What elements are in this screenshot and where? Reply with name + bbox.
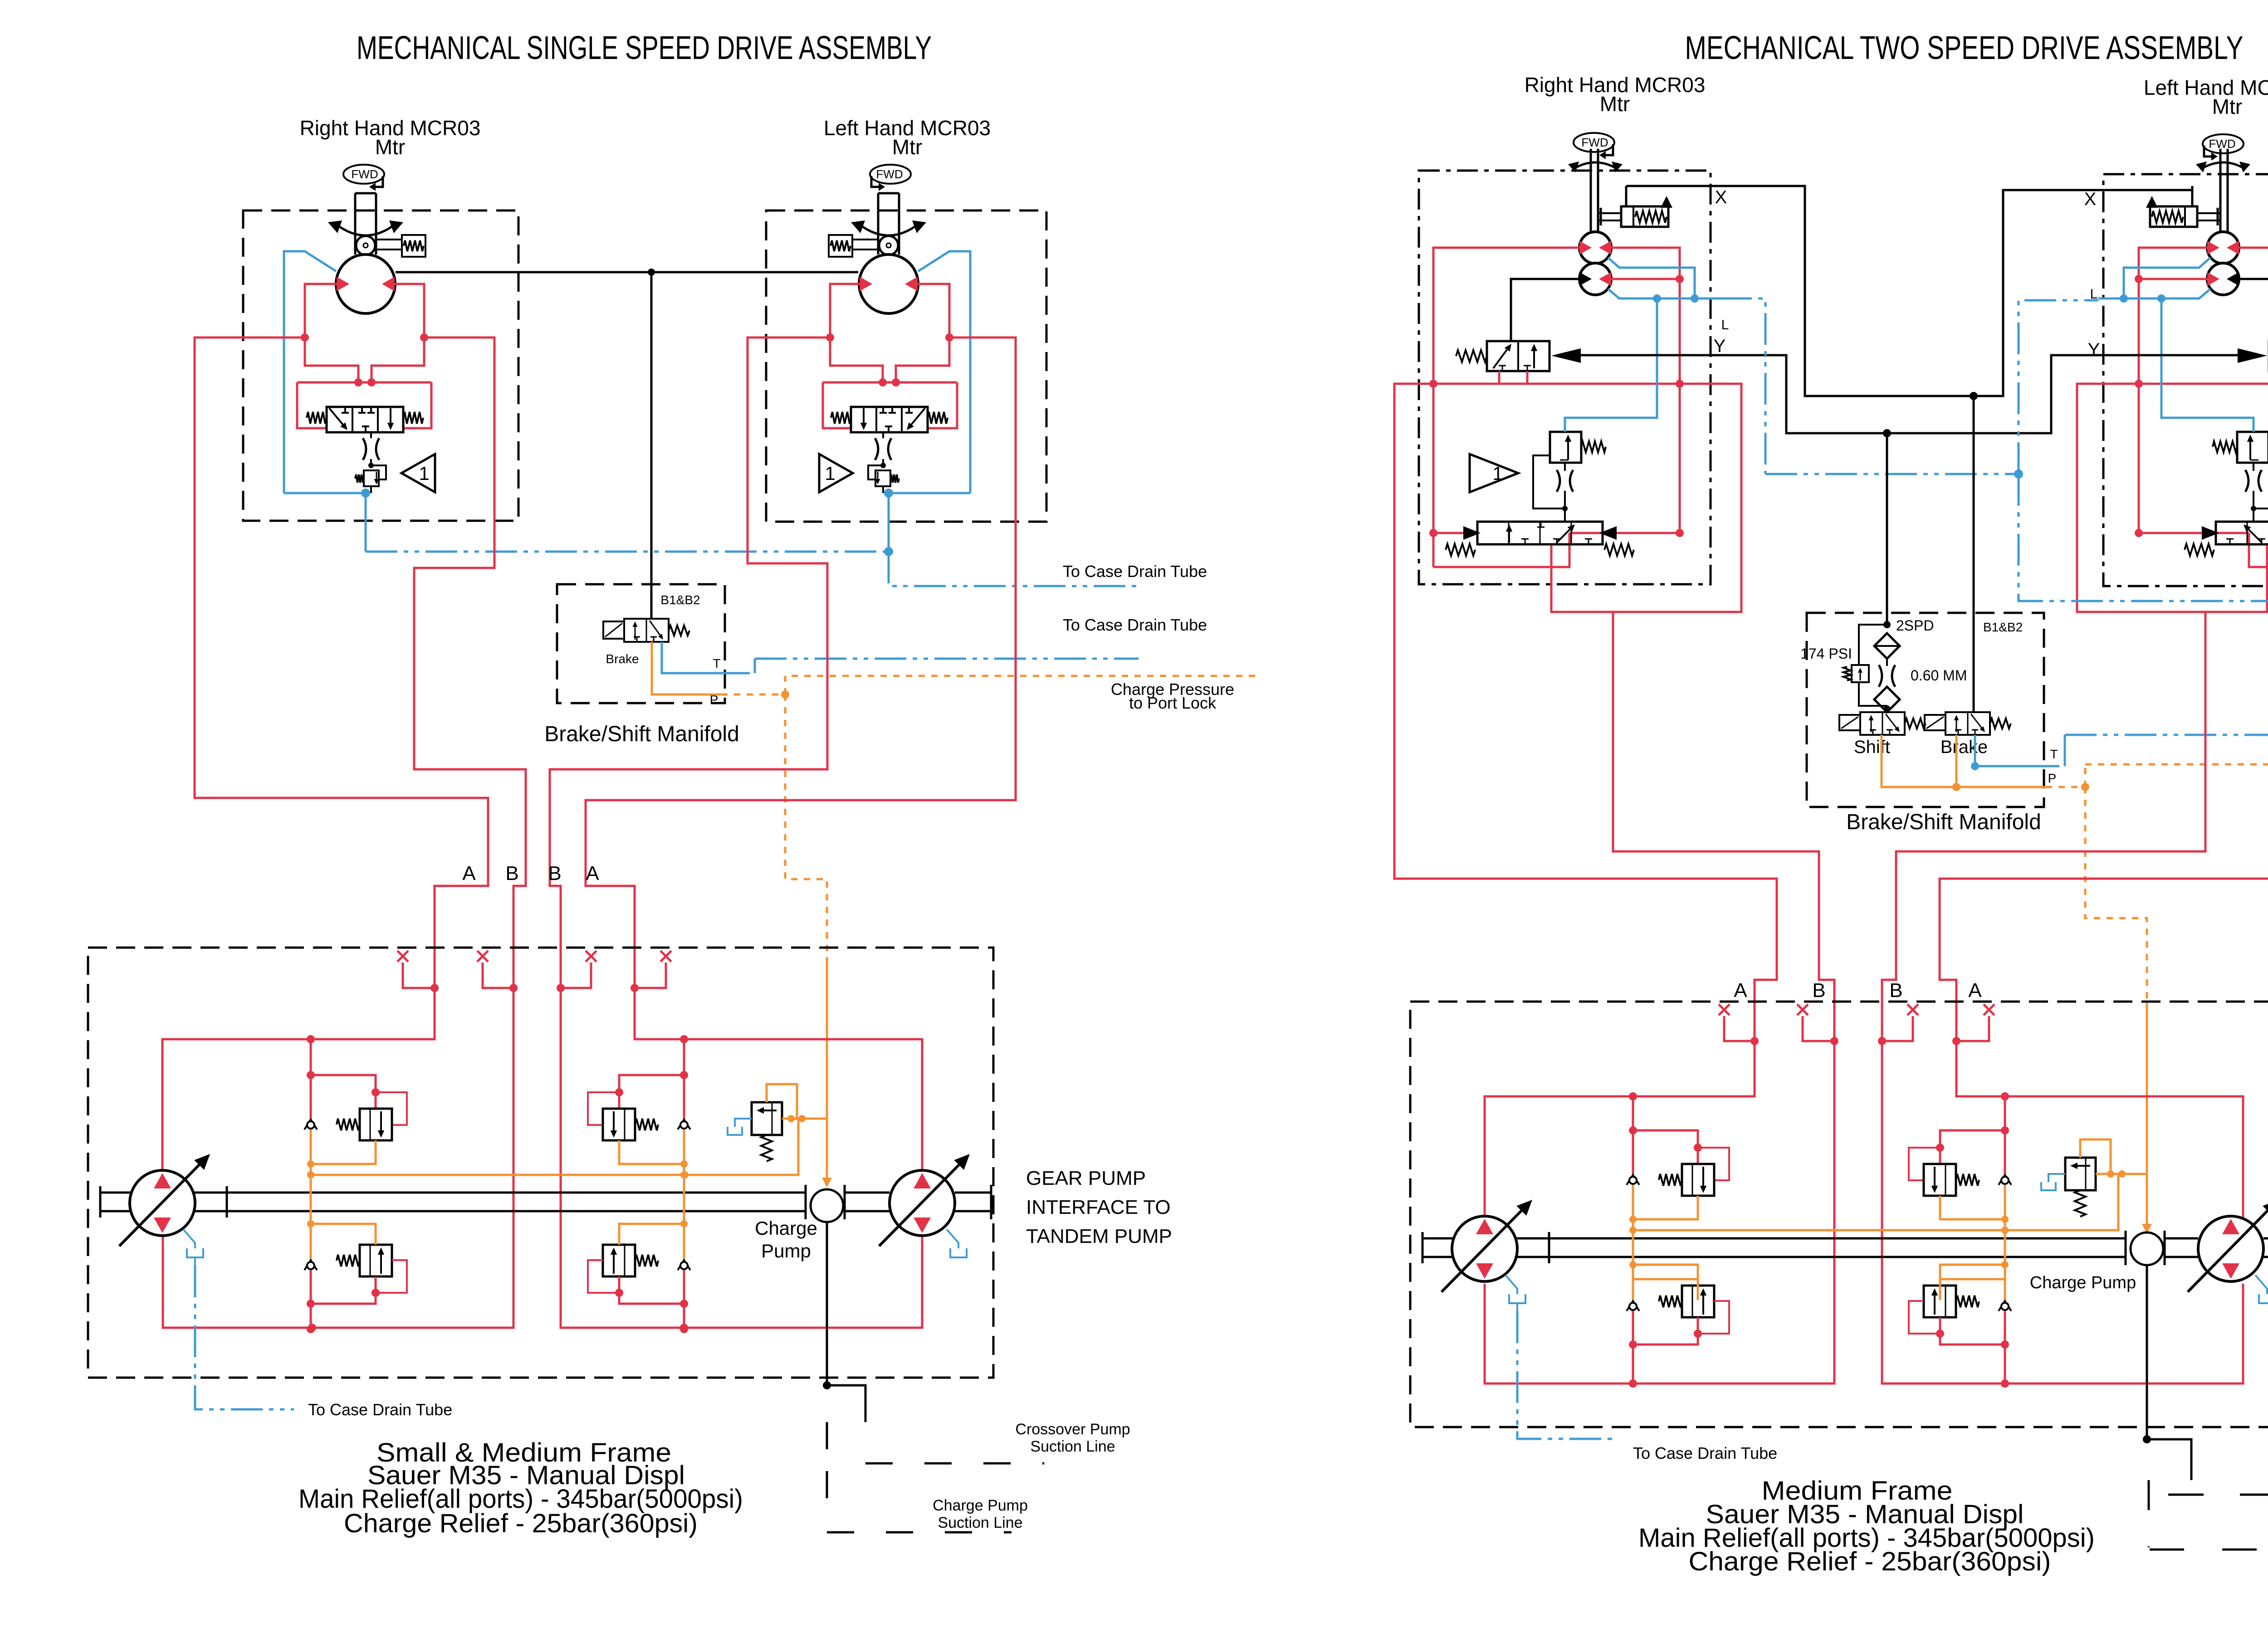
wire manifold valves feed [1886, 709, 1888, 712]
wire red port to valve loop right [830, 337, 883, 382]
wire relief to drain [882, 486, 884, 493]
wire red column upper [683, 1039, 685, 1119]
wire orifice to relief [370, 459, 372, 465]
brake release valve 2spd [1487, 341, 1549, 371]
motor rotation arrows [861, 226, 916, 235]
wire red rail 2spd [2139, 383, 2268, 385]
manifold 2 dashed box [1807, 613, 2044, 807]
svg-text:B1&B2: B1&B2 [660, 593, 700, 607]
check valve upper [1627, 1175, 1639, 1185]
svg-text:1: 1 [1492, 463, 1503, 484]
charge suction dashes right [2148, 1480, 2150, 1547]
motor rotation arrows [338, 226, 393, 235]
svg-text:A: A [586, 862, 599, 885]
filter diamond [1874, 633, 1900, 659]
motor circle [859, 254, 918, 313]
wire red net A2 right [1940, 384, 2268, 1218]
net A2 plug stub [635, 963, 666, 988]
wire red relief out lower [311, 1276, 376, 1304]
check valve upper [678, 1120, 690, 1129]
wire red rail to outer [2077, 384, 2267, 612]
wire orange charge bus lower right [619, 1224, 684, 1245]
FWD rotation ellipse [870, 165, 911, 184]
wire orange brake drop [1955, 735, 1958, 787]
wire orange column mid [683, 1129, 685, 1259]
pump variable arrow [119, 1165, 199, 1246]
manifold brake valve [603, 621, 624, 639]
check valve upper [304, 1120, 317, 1129]
wire orange charge relief out [782, 1118, 827, 1120]
svg-text:MECHANICAL SINGLE SPEED DRIVE: MECHANICAL SINGLE SPEED DRIVE ASSEMBLY [357, 30, 932, 66]
motor shaft [898, 193, 900, 254]
gauge triangle 2spd [1470, 454, 1518, 492]
wire red net A right [1394, 384, 1777, 1218]
wire black charge suction right [2146, 1265, 2148, 1439]
svg-text:Brake/Shift Manifold: Brake/Shift Manifold [544, 722, 739, 746]
svg-text:Mtr: Mtr [375, 135, 405, 159]
psi relief [1859, 625, 1887, 665]
FWD rotation ellipse [343, 165, 384, 184]
wire red rail 2spd [1433, 383, 1680, 385]
wire red relief branch upper [619, 1075, 684, 1109]
defeat relief valve [875, 470, 890, 486]
wire red net B [163, 337, 526, 1328]
motor M4 left-hand dashed box [2103, 174, 2268, 586]
variable pump circle [2198, 1216, 2263, 1281]
svg-text:T: T [2050, 747, 2058, 761]
svg-text:To Case Drain Tube: To Case Drain Tube [1063, 616, 1207, 634]
charge relief valve right [2065, 1158, 2096, 1190]
svg-text:Brake/Shift Manifold: Brake/Shift Manifold [1846, 810, 2041, 834]
blue pump drain out right [1517, 1311, 1615, 1439]
motor circle lower 2spd [1579, 263, 1611, 295]
wire valve to orifice [882, 432, 884, 438]
blue drain junction [884, 489, 893, 498]
FWD arrow hook [2204, 146, 2214, 156]
wire red left col to valve [1432, 384, 1435, 567]
brake valve springs [307, 412, 327, 424]
blue drain loops 2spd [2124, 258, 2210, 298]
motor triangles 2spd [1579, 241, 1592, 254]
wire blue manifold T [662, 642, 750, 673]
wire orange relief branch lower [311, 1224, 376, 1245]
orifice [363, 438, 366, 460]
blue pilot link [2161, 298, 2253, 432]
relief pilot loop [371, 465, 386, 479]
wire red rail to outer [1551, 384, 1741, 612]
wire red port to valve loop left [896, 337, 949, 382]
pump variable arrow [879, 1165, 959, 1246]
wire red inner loop down [2139, 384, 2249, 533]
junction dots motor ports [301, 333, 309, 342]
wire orange relief out upper [1940, 1196, 2005, 1219]
pump flow triangles [1476, 1219, 1493, 1234]
shift spool valve 2spd [1477, 522, 1603, 544]
wire red column upper [2004, 1096, 2006, 1174]
gauge triangle 1 [401, 454, 435, 492]
charge relief blue drain [735, 1119, 752, 1127]
svg-text:Charge Relief - 25bar(360psi): Charge Relief - 25bar(360psi) [1689, 1547, 2051, 1576]
orifice [875, 438, 878, 460]
svg-text:A: A [1734, 979, 1747, 1002]
svg-text:FWD: FWD [351, 167, 378, 181]
relief valve upper [360, 1109, 392, 1140]
wire red relief out lower [619, 1276, 684, 1304]
wire red net B right [1485, 612, 1834, 1384]
wire orange charge bus upper [311, 1119, 798, 1175]
check valve upper [1999, 1175, 2011, 1185]
wire black 2SPD riser [1886, 433, 1888, 625]
wire orange riser right [2085, 787, 2147, 1002]
motor shaft joint circle [356, 236, 375, 255]
motor shaft 2spd [1590, 149, 1592, 233]
relief valve lower [1924, 1286, 1956, 1317]
shift spool valve 2spd [2216, 522, 2268, 544]
wire red lower circle right [1611, 278, 1680, 280]
brake solenoid valve [1925, 715, 1945, 730]
pump flow triangles [2222, 1219, 2239, 1234]
wire black motor link [396, 271, 858, 274]
wire black X to actuator [1625, 186, 1628, 206]
spool springs 2spd [1446, 544, 1475, 556]
wire red upper circle loop [2239, 248, 2268, 384]
motor circle upper 2spd [2207, 232, 2239, 264]
wire red column upper [310, 1039, 312, 1119]
svg-text:Brake: Brake [1941, 737, 1988, 757]
relief pilot upper [588, 1092, 619, 1125]
motor M1 right-hand dashed box [243, 210, 518, 521]
FWD arrow hook [373, 176, 383, 187]
blue case drain internal [889, 492, 970, 494]
svg-text:FWD: FWD [2209, 137, 2235, 151]
wire black X net [1626, 186, 2192, 396]
motor circle upper 2spd [1579, 232, 1611, 264]
relief valve upper [1682, 1164, 1714, 1196]
wire red relief out lower [1633, 1317, 1698, 1345]
orange P junction dot [781, 690, 789, 699]
wire blue drain case right 2 [2065, 734, 2268, 736]
wire relief to drain [370, 486, 372, 493]
check diamond [1874, 687, 1900, 712]
pump P4 drain hook [2255, 1275, 2267, 1294]
net A2 right stub [1956, 1016, 1989, 1041]
solenoid arrow 2spd [1551, 348, 1581, 363]
wire orange relief branch lower [1940, 1265, 2005, 1286]
wire red valve legs [1498, 371, 1501, 384]
wire red port to valve loop right [371, 337, 424, 382]
junction dots valve loop top [892, 378, 900, 386]
svg-text:MECHANICAL TWO SPEED DRIVE ASS: MECHANICAL TWO SPEED DRIVE ASSEMBLY [1685, 30, 2244, 66]
wire orange column mid [310, 1129, 312, 1259]
wire red relief branch upper [311, 1075, 376, 1109]
wire red motor left port [918, 284, 949, 337]
motor triangles 2spd [2227, 241, 2239, 254]
wire black lower circle left [1511, 279, 1580, 341]
svg-text:A: A [1968, 979, 1982, 1002]
wire chain [1886, 659, 1888, 666]
solenoid arrow 2spd [2238, 348, 2267, 363]
variable pump circle [130, 1170, 195, 1236]
FWD rotation ellipse [1574, 133, 1614, 152]
svg-text:Y: Y [1714, 336, 1726, 356]
wire orifice chain 2spd [2253, 463, 2254, 471]
pump flow triangles [154, 1173, 171, 1188]
net B2 plug stub [561, 963, 591, 988]
orifice manifold [1879, 665, 1882, 687]
svg-text:Mtr: Mtr [1600, 92, 1630, 116]
svg-text:To Case Drain Tube: To Case Drain Tube [308, 1400, 452, 1419]
svg-text:B: B [1812, 979, 1825, 1002]
svg-text:P: P [2048, 771, 2057, 785]
net A right stub [1724, 1016, 1755, 1041]
blue drain loops 2spd [1608, 258, 1695, 298]
pump shaft right [1422, 1237, 2126, 1240]
wire orange manifold P 2 [1882, 735, 2046, 787]
relief valve lower [603, 1245, 635, 1276]
motor port triangles [337, 277, 349, 291]
wire red net A [162, 337, 488, 1171]
svg-text:0.60 MM: 0.60 MM [1911, 667, 1967, 684]
wire red column lower [2004, 1311, 2006, 1384]
relief pilot upper [376, 1092, 407, 1125]
wire orange port lock right [2046, 786, 2085, 788]
pilot loop 2spd [2253, 455, 2268, 508]
wire black B1B2 riser [1973, 396, 1975, 712]
charge relief pilot right [2080, 1139, 2111, 1174]
wire red net B2 [550, 337, 922, 1328]
svg-text:Charge Relief - 25bar(360psi): Charge Relief - 25bar(360psi) [344, 1509, 698, 1538]
wire blue drain M1 to junction [366, 551, 889, 553]
check valve lower [678, 1260, 690, 1270]
wire black Y net [1581, 355, 2238, 433]
wire orange charge bus lower left [311, 1224, 376, 1245]
junction dots valve loop top [354, 378, 362, 386]
pump box right dashed [1410, 1002, 2268, 1427]
wire red motor left port [305, 284, 337, 337]
svg-text:Suction Line: Suction Line [938, 1514, 1022, 1531]
red rail dots [1429, 380, 1437, 388]
motor shaft 2spd [2227, 149, 2229, 233]
wire orange riser to charge pump [826, 1119, 828, 1179]
motor port triangles [905, 277, 918, 291]
wire blue L net [1720, 298, 1765, 474]
pump variable arrow [2188, 1211, 2268, 1292]
wire red inner loop down [1569, 384, 1680, 533]
blue drain junction dot [884, 547, 893, 556]
variable pump circle [890, 1170, 955, 1236]
wire orifice chain 2spd [1564, 463, 1566, 471]
wire red net B2 right [1882, 612, 2243, 1384]
gauge triangle 1 [819, 454, 853, 492]
wire orange relief out upper [1633, 1196, 1698, 1219]
check valve lower [1627, 1301, 1639, 1311]
crossover suction link [827, 1385, 865, 1422]
relief pilot lower [1909, 1301, 1940, 1334]
wire orange relief out upper [311, 1140, 376, 1164]
wire orange charge to port lock [792, 675, 1261, 677]
blue pilot link [1565, 298, 1657, 432]
relief pilot lower [588, 1260, 619, 1293]
pump P2 drain hook [947, 1229, 958, 1248]
svg-text:To Case Drain Tube: To Case Drain Tube [1633, 1444, 1777, 1462]
svg-text:FWD: FWD [876, 167, 903, 181]
wire red relief branch upper [1633, 1130, 1698, 1164]
wire red lower circle right [2139, 278, 2208, 280]
blue case drain internal [284, 492, 366, 494]
displacement limiter cylinder [852, 239, 878, 240]
wire blue manifold T 2 [1975, 735, 2059, 766]
svg-text:2SPD: 2SPD [1896, 617, 1934, 634]
motor circle [336, 254, 395, 313]
rotation arc 2spd [1574, 162, 1617, 169]
wire orange relief branch lower [1633, 1265, 1698, 1286]
pump box dashed [88, 948, 993, 1378]
svg-text:GEAR PUMP: GEAR PUMP [1026, 1167, 1146, 1189]
svg-text:A: A [462, 862, 476, 885]
svg-text:Y: Y [2088, 340, 2100, 360]
svg-text:Brake: Brake [606, 652, 639, 666]
blue drain down [888, 493, 890, 552]
pump P1 drain hook [183, 1229, 195, 1248]
svg-text:T: T [713, 656, 720, 670]
wire red relief out lower [1940, 1317, 2005, 1345]
pump shaft [100, 1192, 806, 1194]
wire orange charge relief out right [2096, 1173, 2147, 1175]
blue drain down [365, 493, 367, 552]
wire orange manifold P [652, 642, 721, 694]
blue drain junction [361, 489, 370, 498]
wire blue drain case 1 [889, 552, 1139, 586]
wire red relief branch upper [1940, 1130, 2005, 1164]
svg-text:Shift: Shift [1854, 737, 1890, 757]
svg-text:Mtr: Mtr [2212, 95, 2242, 118]
displacement actuator 2spd [2197, 212, 2220, 214]
relief valve upper [1924, 1164, 1956, 1196]
wire orange relief out upper [619, 1140, 684, 1164]
svg-text:To Case Drain Tube: To Case Drain Tube [1063, 562, 1207, 581]
relief pilot loop [868, 465, 883, 479]
svg-text:174 PSI: 174 PSI [1800, 645, 1852, 662]
wire red column lower [1632, 1311, 1634, 1384]
defeat relief valve [364, 470, 379, 486]
wire red column lower [310, 1270, 312, 1329]
svg-text:X: X [1715, 187, 1727, 207]
check valve lower [1999, 1301, 2011, 1311]
relief pilot lower [1698, 1301, 1729, 1334]
motor shaft joint circle [879, 236, 898, 255]
svg-text:X: X [2084, 189, 2097, 209]
svg-text:Suction Line: Suction Line [1030, 1438, 1115, 1455]
svg-text:Charge: Charge [755, 1217, 817, 1239]
relief pilot upper [1698, 1148, 1729, 1180]
wire black X to actuator [2191, 186, 2194, 206]
wire red column lower [683, 1270, 685, 1329]
rotation arc 2spd [2201, 162, 2245, 169]
svg-text:Pump: Pump [761, 1240, 811, 1261]
wire red net A2 [586, 337, 1016, 1171]
orange triangle right [2142, 1224, 2152, 1234]
brake/shift manifold dashed box [557, 584, 725, 703]
pilot loop 2spd [1533, 455, 1565, 508]
pump flow triangles [914, 1173, 931, 1188]
junction dots motor ports [945, 333, 953, 342]
brake shuttle valve body [327, 407, 403, 432]
svg-text:Charge Pump: Charge Pump [2030, 1273, 2136, 1292]
wire black to brake manifold [650, 272, 653, 619]
svg-text:TANDEM PUMP: TANDEM PUMP [1026, 1225, 1172, 1247]
motor M3 right-hand dashed box [1419, 171, 1711, 584]
svg-text:B: B [1889, 979, 1902, 1002]
red stubs spool [1433, 532, 1463, 534]
wire blue L drain out [2019, 474, 2268, 601]
brake valve springs [928, 412, 948, 424]
wire chain 2 [1884, 705, 1890, 712]
wire orifice to relief [882, 459, 884, 465]
relief pilot upper [1909, 1148, 1940, 1180]
blue pump drain out [195, 1266, 294, 1409]
wire blue drain case 2 from T [755, 658, 1139, 660]
relief valve lower [1682, 1286, 1714, 1317]
net B2 right stub [1882, 1016, 1913, 1041]
svg-text:Crossover Pump: Crossover Pump [1015, 1421, 1130, 1438]
charge pump circle right [2131, 1232, 2163, 1265]
svg-text:1: 1 [419, 463, 429, 484]
motor shaft [354, 193, 357, 254]
charge relief drain right [2048, 1174, 2065, 1182]
pump variable arrow [1442, 1211, 1521, 1292]
shift pilot relief 2spd [1550, 432, 1581, 463]
wire red motor right port [395, 284, 424, 337]
svg-text:FWD: FWD [1581, 136, 1608, 149]
motor circle lower 2spd [2207, 263, 2239, 295]
net A plug stub [403, 963, 435, 988]
net B plug stub [483, 963, 513, 988]
shift solenoid valve [1839, 715, 1860, 730]
wire red upper circle loop [1433, 248, 1580, 384]
check valve lower [304, 1260, 317, 1270]
displacement limiter cylinder [376, 239, 402, 240]
svg-text:Mtr: Mtr [892, 135, 922, 159]
svg-text:L: L [1721, 318, 1729, 332]
relief pilot lower [376, 1260, 407, 1293]
brake shuttle valve body [851, 407, 928, 432]
svg-text:B: B [548, 862, 561, 885]
wire orange charge bus upper right [1633, 1174, 2118, 1230]
crossover suction dashes [865, 1462, 1044, 1465]
wire orange column mid [2004, 1185, 2006, 1300]
pump P3 drain hook [1505, 1275, 1517, 1294]
charge relief pilot loop [767, 1084, 797, 1119]
relief valve upper [603, 1109, 635, 1140]
FWD rotation ellipse [2203, 134, 2244, 153]
svg-text:1: 1 [825, 463, 835, 484]
wire orange relief branch lower [619, 1224, 684, 1245]
svg-text:B: B [505, 862, 518, 885]
wire black lower circle left [2239, 279, 2268, 341]
red loop around brake valve [297, 381, 431, 384]
wire orange P to charge pump [785, 694, 827, 957]
charge pump circle [811, 1189, 843, 1222]
wire orange P dotted link [721, 694, 785, 696]
wire orange bus lower taps right [1633, 1279, 1698, 1300]
crossover suction link right [2147, 1439, 2191, 1480]
variable pump circle [1452, 1216, 1517, 1281]
shift pilot relief 2spd [2237, 432, 2268, 463]
svg-text:Charge Pump: Charge Pump [933, 1497, 1028, 1514]
wire valve to orifice [370, 432, 372, 438]
relief valve lower [360, 1245, 392, 1276]
motor M2 left-hand dashed box [766, 210, 1046, 522]
